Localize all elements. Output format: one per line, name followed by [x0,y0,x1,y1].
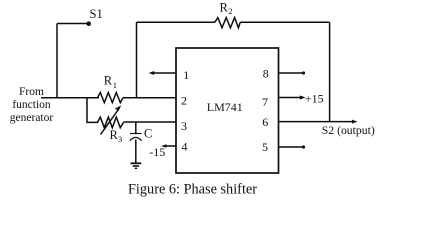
wire input from function generator [41,97,99,99]
svg-text:1: 1 [113,80,117,90]
pin 7 stub [279,97,302,99]
svg-text:C: C [144,127,152,141]
svg-text:generator: generator [10,112,54,124]
wire S1 branch horizontal [57,23,89,25]
svg-text:S1: S1 [90,7,103,21]
capacitor C top plate [130,133,142,135]
pin 7 stub arrowhead [300,95,306,99]
resistor R1 zigzag [98,93,124,103]
wire output from pin 6 [279,121,356,123]
svg-text:S2 (output): S2 (output) [322,124,375,137]
pin 1 stub [152,72,176,74]
resistor R2 zigzag [215,18,241,28]
pin 1 stub arrowhead [149,71,155,75]
pin 4 stub arrowhead [161,144,167,148]
wire R2 feedback left vertical [136,22,138,98]
pin 4 stub [164,145,176,147]
pin 5 stub [279,146,303,148]
pin 8 stub end dot [302,71,305,74]
svg-text:3: 3 [118,134,122,144]
svg-text:-15: -15 [149,145,165,159]
svg-text:6: 6 [262,115,268,129]
svg-text:7: 7 [262,95,268,109]
pin 8 stub [279,72,303,74]
svg-text:LM741: LM741 [207,100,243,114]
capacitor C top lead [135,122,137,133]
svg-text:5: 5 [262,140,268,154]
op-amp U1 LM741 body [176,48,279,173]
wire R1 to pin 2 [123,97,176,99]
wire S1 branch vertical [56,24,58,99]
svg-text:4: 4 [182,139,188,153]
ground bar 2 [133,165,140,167]
switch S1 contact dot [86,21,91,26]
svg-text:From: From [19,86,44,98]
wire branch down to R3 [87,98,98,123]
resistor R3 zigzag [98,117,124,128]
wire top left to R2 [137,21,216,23]
capacitor C bottom lead [135,140,137,163]
svg-text:8: 8 [263,67,269,81]
ground bar 1 [131,162,142,164]
svg-text:+15: +15 [305,91,324,105]
potentiometer R3 arrow shaft [101,108,120,135]
svg-text:R: R [220,1,229,15]
svg-text:2: 2 [181,94,187,108]
ground bar 3 [135,167,138,169]
pin 5 stub end dot [302,145,305,148]
potentiometer R3 arrowhead [115,106,121,111]
svg-text:2: 2 [228,6,232,16]
wire R2 feedback right vertical [329,22,331,121]
wire R3 to pin 3 [124,121,177,123]
svg-text:R: R [104,73,113,87]
output wire arrowhead [352,120,358,124]
svg-text:3: 3 [181,119,187,133]
svg-text:Figure 6: Phase shifter: Figure 6: Phase shifter [128,182,257,198]
svg-text:function: function [12,99,51,111]
svg-text:1: 1 [183,68,189,82]
wire R2 to right corner [240,21,329,23]
capacitor C curved bottom plate [130,137,142,140]
